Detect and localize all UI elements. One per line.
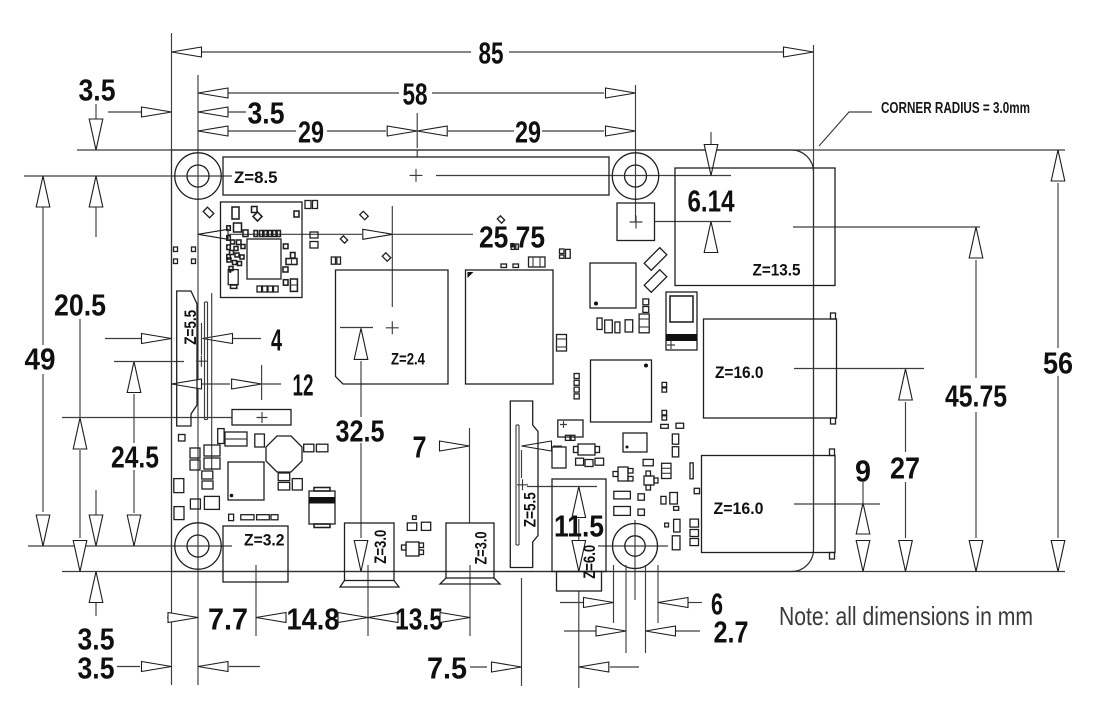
connector J1 DSI — [177, 291, 197, 426]
svg-text:20.5: 20.5 — [54, 287, 106, 322]
dim 85 line — [202, 51, 471, 53]
chip U2 pin1 — [468, 272, 474, 278]
dim 11.5 line — [578, 519, 580, 540]
node soc centerline — [340, 327, 373, 329]
wire dsi footprint line — [211, 293, 213, 470]
dim 2.7 arrows — [596, 626, 626, 636]
module U5 bottom pads — [257, 286, 278, 292]
dim 4 line — [105, 338, 141, 340]
mounting hole top-right drill — [625, 165, 647, 187]
corner radius leader — [819, 112, 872, 146]
transistor Q1 SOT23 — [618, 467, 628, 481]
connector J3 tabs — [830, 449, 835, 456]
dim 7.5 line — [470, 666, 487, 668]
svg-text:85: 85 — [479, 35, 504, 70]
transistor SOT center — [578, 444, 595, 455]
svg-text:Z=13.5: Z=13.5 — [753, 261, 801, 280]
wire top holes horizontal centerline left — [24, 175, 232, 177]
dim 7.5 arrows — [492, 662, 522, 672]
dim 12 arrows — [172, 379, 202, 389]
dim 12 line — [202, 383, 230, 385]
connector J6 camera CSI — [510, 401, 538, 568]
dim 29 left line — [228, 130, 296, 132]
capacitor C6 band — [309, 497, 335, 504]
svg-text:45.75: 45.75 — [945, 378, 1007, 413]
wire av hole right tangent center extension — [657, 565, 659, 623]
wire top-right hole vertical centerline — [635, 85, 637, 222]
svg-text:Z=3.0: Z=3.0 — [472, 532, 491, 565]
connector J2 USB upper — [704, 319, 837, 418]
connector J6 center mark — [517, 479, 528, 490]
component big with dot — [623, 433, 647, 452]
dim 7 tail — [553, 445, 562, 447]
dim 29 right line — [448, 130, 514, 132]
module U5 internal parts — [227, 207, 299, 289]
transistor Q2 SOT23 horizontal — [644, 476, 654, 485]
capacitor C6 body — [309, 491, 335, 524]
svg-text:7.7: 7.7 — [208, 601, 248, 636]
dim 7 arrows — [440, 441, 470, 451]
connector J11 HDMI — [446, 523, 494, 578]
dim 25.75 arrows — [198, 229, 228, 239]
wire camera center extension — [521, 578, 523, 686]
wire hdmi center extension above — [469, 428, 471, 523]
dim 24.5 line — [133, 394, 135, 443]
wire top holes horizontal centerline right — [436, 175, 731, 177]
module U5 tall part — [290, 279, 297, 291]
dim 32.5 arrows — [354, 328, 368, 359]
chip U3 pin1 dot — [644, 364, 648, 368]
svg-text:Z=5.5: Z=5.5 — [181, 310, 200, 345]
capacitors near HDMI — [407, 516, 430, 531]
dim 45.75 line — [975, 260, 977, 378]
dim 3.5 vert bottom stem — [95, 490, 97, 515]
dim 6.14 arrows — [704, 145, 718, 176]
header J14 PoE — [617, 203, 655, 241]
wire av jack center extension — [578, 591, 580, 688]
dim 24.5 arrows — [127, 362, 141, 393]
svg-text:Z=3.0: Z=3.0 — [371, 530, 390, 564]
mounting hole top-left pad — [175, 153, 221, 199]
dim 49 line — [42, 207, 44, 345]
header J14 center mark — [630, 216, 643, 229]
svg-text:7.5: 7.5 — [427, 650, 467, 685]
node usb1 centerline — [794, 368, 924, 370]
dim 4 arrows — [142, 334, 172, 344]
dim 6 line — [560, 602, 584, 604]
header RUN rect — [232, 410, 291, 426]
svg-text:Z=6.0: Z=6.0 — [580, 545, 599, 579]
node reference line y361 — [114, 361, 184, 363]
chip U8 LAN top — [590, 263, 636, 308]
dim 9 line — [862, 482, 864, 503]
mounting hole top-right pad — [612, 153, 658, 199]
diamond pad C — [382, 253, 390, 261]
wire bottom board edge extension line — [62, 571, 1065, 573]
connector small top — [529, 257, 546, 267]
wire bottom-right hole vertical centerline — [634, 520, 636, 600]
diamond pad E — [497, 216, 504, 223]
pads right of module — [305, 201, 318, 249]
pads top right area — [560, 249, 571, 258]
mounting hole bottom-left drill — [187, 535, 209, 557]
wire av drill right center extension — [645, 565, 647, 653]
wire left board edge extension line — [171, 33, 173, 685]
svg-text:13.5: 13.5 — [395, 601, 443, 636]
connector J8 center mark — [410, 169, 423, 182]
dim 56 arrows — [1051, 150, 1065, 181]
svg-text:24.5: 24.5 — [111, 439, 159, 474]
dim 2.7 line — [564, 630, 596, 632]
svg-text:27: 27 — [890, 450, 920, 485]
wire top board edge extension line — [77, 149, 1065, 151]
wire av drill left center extension — [625, 565, 627, 653]
component DC input inner — [225, 438, 247, 440]
chip U6 wireless soc — [247, 239, 281, 279]
mounting hole bottom-right drill — [625, 536, 645, 556]
transistor pair diag B — [644, 270, 667, 293]
dim 3.5 horiz bottom line — [117, 666, 140, 668]
wire left holes vertical centerline — [197, 75, 199, 685]
dim 29 center tick — [416, 113, 418, 148]
chip U4 PMIC — [228, 462, 264, 500]
connector J3 USB lower — [702, 456, 836, 553]
dim 13.5 arrow left — [368, 613, 398, 623]
svg-text:29: 29 — [515, 114, 541, 149]
mounting hole top-left drill — [187, 165, 209, 187]
svg-text:4: 4 — [271, 322, 282, 357]
svg-text:Z=2.4: Z=2.4 — [391, 350, 425, 369]
dim 27 arrows — [899, 369, 913, 400]
dim 7.7 tail — [167, 617, 168, 619]
dim 3.5 vert bottom arrows — [89, 515, 103, 546]
mounting hole bottom-left pad — [175, 523, 221, 569]
svg-text:32.5: 32.5 — [336, 413, 385, 448]
dim 25.75 line — [228, 233, 362, 235]
transistor pair diag A — [644, 248, 667, 271]
chip U1 SoC Z=2.4 — [336, 270, 449, 384]
dim 56 line — [1057, 183, 1059, 348]
dim 3.5 horiz top arrows — [142, 107, 172, 117]
svg-text:Z=8.5: Z=8.5 — [234, 168, 278, 187]
dim 14.8 arrow — [338, 613, 368, 623]
dim 32.5 line — [360, 361, 362, 417]
dim 3.5 vert top stem — [95, 104, 97, 119]
chip U1 center mark — [386, 321, 399, 334]
svg-text:11.5: 11.5 — [554, 508, 604, 543]
dim 85 arrows — [172, 47, 202, 57]
diamond pad A — [203, 207, 214, 218]
component rect with mark — [558, 420, 583, 437]
dim 20.5 arrows — [73, 418, 87, 449]
node ethernet centerline — [793, 226, 980, 228]
dim 58 line — [228, 92, 399, 94]
connector J8 GPIO header — [223, 157, 609, 195]
pads above U2 — [511, 244, 518, 249]
svg-text:Z=16.0: Z=16.0 — [715, 363, 764, 382]
svg-text:Z=3.2: Z=3.2 — [244, 531, 285, 550]
module U5 chip small — [228, 270, 238, 285]
resistor capacitor cluster PMIC area — [174, 429, 328, 521]
dim 13.5 arrow right — [440, 613, 470, 623]
dim 3.5 vert top lower stem — [95, 207, 97, 237]
dim 4 tick — [201, 323, 203, 355]
capacitor right of RAM — [557, 335, 567, 352]
pads pair above U2 left — [501, 264, 519, 268]
wire right board edge extension line — [813, 45, 815, 550]
dim 29 left arrows — [198, 126, 228, 136]
resistor array RN1 — [662, 463, 671, 478]
svg-text:6.14: 6.14 — [688, 183, 736, 218]
dim 9 arrows — [856, 503, 870, 534]
dim 29 right arrows — [417, 126, 447, 136]
connector J6 slot — [515, 425, 517, 545]
chip U8 pin1 dot — [594, 302, 598, 306]
svg-text:Note: all dimensions in mm: Note: all dimensions in mm — [779, 601, 1033, 631]
dim 49 arrows — [36, 176, 50, 207]
wire av hole left tangent center extension — [613, 565, 615, 623]
wire bottom holes horizontal centerline left — [28, 545, 232, 547]
dim 3.5 vert bottom stem2 — [95, 603, 97, 616]
node reference line y418 — [62, 417, 232, 419]
module U5 2pad part — [286, 259, 297, 265]
connector J10 micro-USB power — [345, 523, 395, 581]
node usb2 centerline — [794, 503, 880, 505]
dim 6.14 stem — [710, 132, 712, 144]
connector J2 tabs — [831, 313, 836, 319]
resistor capacitor cluster center bottom — [552, 382, 700, 549]
module U5 wireless shield — [221, 202, 303, 298]
pads right of U8 — [643, 299, 649, 313]
dim 3.5 vert top arrows — [89, 119, 103, 150]
svg-text:58: 58 — [403, 76, 428, 111]
svg-text:3.5: 3.5 — [248, 95, 285, 130]
svg-text:29: 29 — [298, 114, 324, 149]
connector J7 AV jack — [552, 479, 606, 572]
svg-text:7: 7 — [413, 429, 427, 464]
connector J10 flange — [340, 581, 399, 588]
svg-text:56: 56 — [1043, 345, 1073, 380]
svg-text:14.8: 14.8 — [287, 601, 340, 636]
connector J4 ethernet — [675, 168, 835, 286]
svg-text:2.7: 2.7 — [714, 614, 749, 649]
connector J7 barrel — [557, 572, 602, 592]
pads above U1 — [331, 257, 340, 264]
component below DSI — [179, 435, 186, 442]
board outline — [172, 150, 814, 572]
dim 58 arrows — [198, 88, 228, 98]
dim 27 line — [905, 402, 907, 452]
pads column left of U3 — [574, 374, 579, 399]
svg-text:49: 49 — [25, 341, 56, 376]
wire gpio center tick — [416, 150, 418, 157]
node av jack centerline — [527, 486, 597, 488]
svg-text:3.5: 3.5 — [79, 72, 116, 107]
transistor Q3 SOT23 — [406, 542, 419, 556]
dim 7.7 arrows — [168, 613, 198, 623]
module U5 diamond pad — [253, 212, 262, 221]
capacitor C6 tabs — [314, 488, 330, 492]
wire usb pwr center extension — [367, 565, 369, 636]
wire bottom holes horizontal centerline right — [598, 545, 668, 547]
header RUN center mark — [257, 412, 268, 423]
dim 12 tick — [261, 365, 263, 400]
svg-text:Z=5.5: Z=5.5 — [521, 492, 540, 527]
connector J11 flange — [440, 578, 500, 584]
chip U2 RAM — [466, 270, 554, 384]
pads left of module — [174, 247, 196, 264]
transformer T1 — [666, 292, 697, 350]
inductor L1 octagon — [266, 436, 302, 472]
diamond pad D — [360, 211, 368, 219]
connector J1 center mark — [196, 356, 207, 367]
svg-text:CORNER RADIUS = 3.0mm: CORNER RADIUS = 3.0mm — [881, 100, 1030, 117]
diamond pad B — [340, 236, 347, 243]
svg-text:3.5: 3.5 — [78, 650, 115, 685]
connector J1 slot — [204, 302, 206, 420]
wire sd center extension — [255, 565, 257, 636]
capacitor row below U8 — [597, 314, 649, 333]
dim 20.5 line — [79, 319, 81, 418]
dim 6 arrows — [584, 598, 614, 608]
connector J9 SD card — [223, 526, 288, 582]
wire hdmi center extension — [469, 565, 471, 636]
chip U3 lower — [591, 360, 652, 422]
mounting hole bottom-right pad — [613, 524, 658, 569]
node poe centerline — [655, 221, 731, 223]
dim 3.5 horiz bottom arrows — [142, 662, 172, 672]
dim 11.5 arrows — [572, 487, 586, 518]
dim 3.5 horiz top line — [108, 111, 141, 113]
wire soc center extension — [391, 206, 393, 307]
wire camera center ext — [521, 450, 523, 478]
chip U4 dot — [230, 494, 234, 498]
svg-text:Z=16.0: Z=16.0 — [714, 499, 764, 518]
svg-text:12: 12 — [293, 367, 314, 402]
dim 45.75 arrows — [969, 227, 983, 258]
